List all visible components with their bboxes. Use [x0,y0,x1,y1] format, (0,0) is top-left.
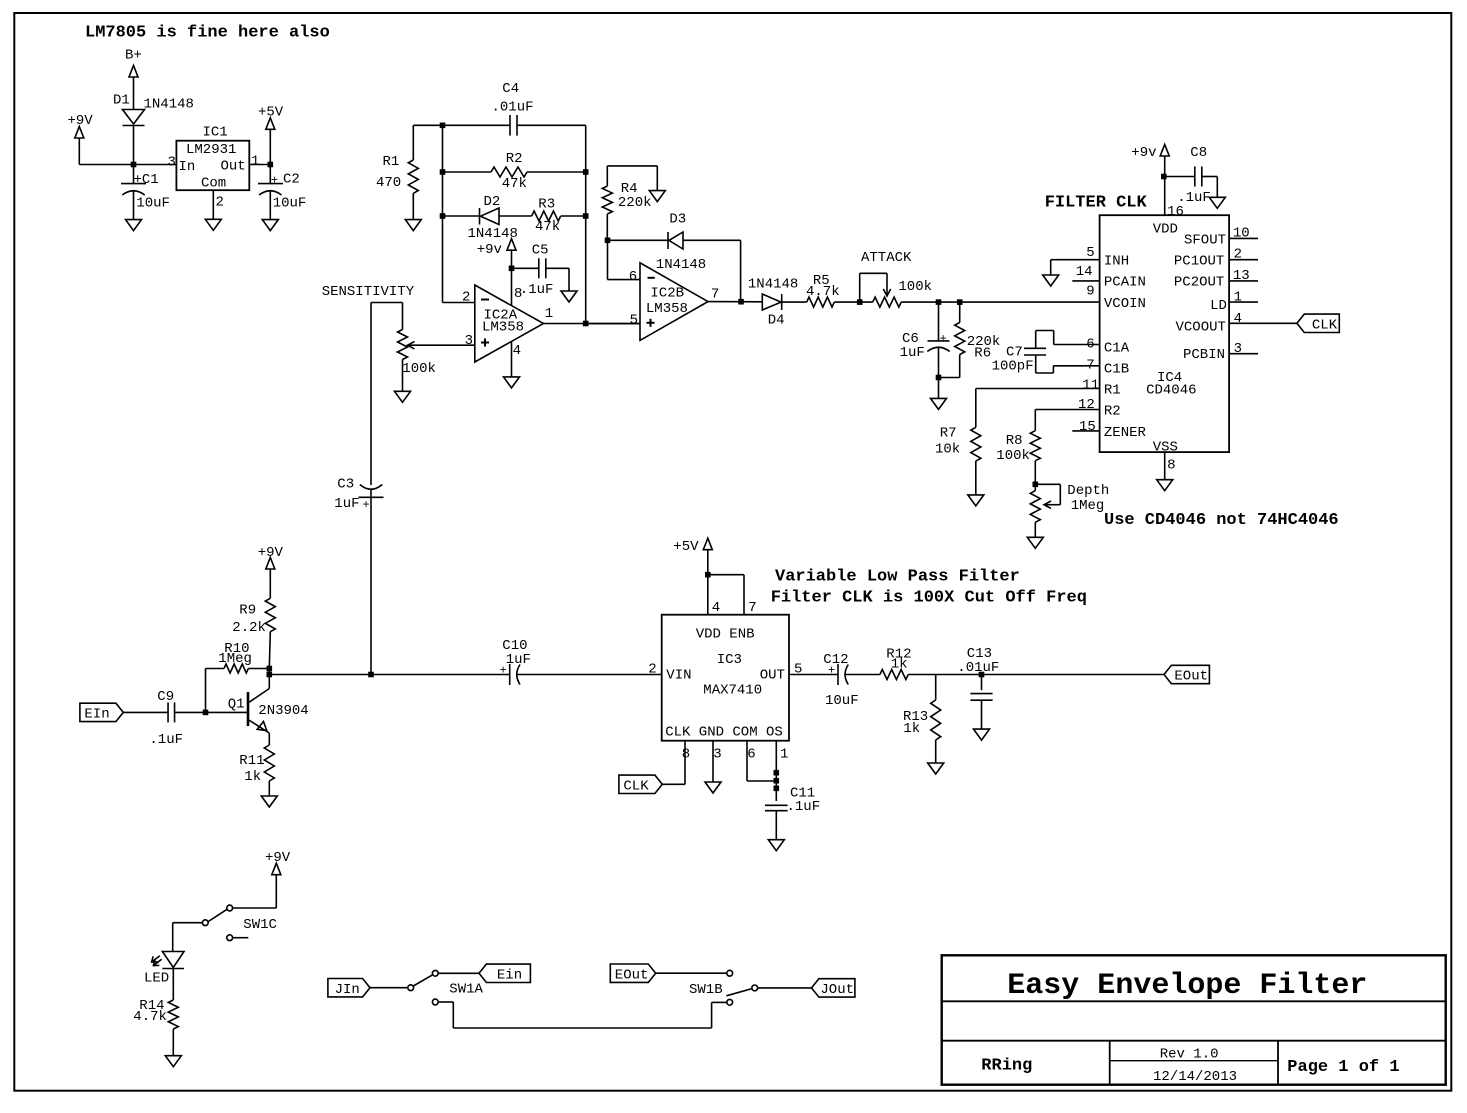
svg-text:2N3904: 2N3904 [258,703,308,719]
svg-text:CD4046: CD4046 [1146,383,1196,399]
switch SW1A lower contact [432,999,438,1005]
pin number 9 [1086,284,1094,300]
wire VCOOUT to CLK tag [1229,322,1297,324]
minus sign IC2A [481,299,489,301]
svg-text:JIn: JIn [335,982,360,998]
svg-text:R1: R1 [383,154,400,170]
junction R3 right [583,213,589,219]
wire pin2 IC2A [443,302,475,304]
pin number 10 [1233,226,1250,242]
svg-text:Easy Envelope Filter: Easy Envelope Filter [1007,969,1367,1003]
resistor R3 [532,211,561,221]
label IC2B [650,286,684,302]
capacitor C13 [970,694,992,701]
resistor R5 [807,297,835,307]
svg-text:470: 470 [376,175,401,191]
pin name VCOIN [1104,296,1146,312]
label D3 [669,212,686,228]
note Variable Low Pass Filter [775,568,1020,587]
pin number 8 IC4 [1167,458,1175,474]
svg-text:VDD ENB: VDD ENB [696,627,755,643]
svg-text:IC1: IC1 [203,125,228,141]
net tag EIn [80,703,123,722]
label LM358 A [482,319,524,335]
svg-text:R1: R1 [1104,383,1121,399]
node B+ label [125,48,142,64]
junction IC3 supply [705,572,711,578]
pin number 2 IC4 [1234,247,1242,263]
wire D2 row left [443,215,480,217]
value 470 [376,175,401,191]
pin number 4 IC4 [1234,311,1242,327]
LED D5 [152,952,184,969]
label SENSITIVITY [322,284,415,300]
page text [1287,1058,1399,1077]
pin number 3 IC2A [465,333,473,349]
svg-text:Variable Low Pass Filter: Variable Low Pass Filter [775,568,1020,587]
junction D2 row left [440,213,446,219]
svg-text:11: 11 [1082,378,1099,394]
wire R6 bottom join [939,377,960,379]
wire EOut to SW1B top [656,972,727,974]
wire SW1A to Ein tag [438,972,479,974]
pot SENSITIVITY bracket [371,303,403,330]
wire to C8 [1165,176,1195,178]
svg-text:PC1OUT: PC1OUT [1174,254,1224,270]
ground below IC2A [504,377,520,388]
value 1Meg depth [1071,498,1105,514]
power +5V arrow at IC3 [673,538,712,555]
svg-text:JOut: JOut [820,982,854,998]
pin number 7 IC2B [711,286,719,302]
svg-text:2: 2 [1234,247,1242,263]
value .1uF for C11 [787,799,821,815]
pin number 4 IC3 [712,600,720,616]
label IC1 [203,125,228,141]
pin number 16 [1167,204,1184,220]
svg-text:7: 7 [748,600,756,616]
svg-text:1: 1 [545,306,553,322]
junction D3 row [605,238,611,244]
switch SW1A lever [413,975,432,986]
svg-text:PCBIN: PCBIN [1183,347,1225,363]
value 4.7k for R14 [133,1009,167,1025]
label FILTER CLK [1045,193,1148,212]
label Q1 [228,697,245,713]
svg-text:9: 9 [1086,284,1094,300]
svg-text:1N4148: 1N4148 [656,257,706,273]
power +5V arrow [258,105,284,130]
pin names VDD ENB [696,627,755,643]
ground below R14 [165,1056,181,1067]
wire +5V down [269,129,271,164]
label + for C2 [271,173,278,187]
title block outer [942,955,1446,1084]
svg-text:8: 8 [1167,458,1175,474]
pin number 4 IC2A [513,343,521,359]
label D2 [484,194,501,210]
resistor R1 [408,125,418,219]
wire R3 to rail [561,215,586,217]
wire C6 to ground [938,378,940,399]
capacitor C7 bracket top [1036,331,1100,349]
capacitor C1 [121,165,146,220]
value 1k for R12 [891,657,908,673]
svg-text:4: 4 [513,343,521,359]
label R1 [383,154,400,170]
svg-text:10uF: 10uF [273,196,307,212]
value 1uF for C3 [334,496,359,512]
value 220k for R6 [967,334,1001,350]
svg-text:R8: R8 [1006,433,1023,449]
wire +9v to pin8 [511,250,513,305]
rev text [1160,1047,1219,1063]
svg-text:8: 8 [514,286,522,302]
value 1N4148 for D2 [468,226,518,242]
svg-text:2.2k: 2.2k [232,620,266,636]
ground below R11 [261,796,277,807]
svg-text:+: + [828,664,835,678]
net tag Ein [479,964,530,983]
wire INH to ground [1051,260,1100,275]
svg-text:4: 4 [1234,311,1242,327]
switch SW1C contact right [227,905,233,911]
wire JIn to SW1A [370,987,408,989]
wire SW1B to JOut [758,987,812,989]
svg-text:4.7k: 4.7k [806,284,840,300]
diode D3 [668,232,683,249]
svg-text:.01uF: .01uF [957,660,999,676]
ground below R1 [405,220,421,231]
svg-text:7: 7 [711,286,719,302]
value 100k sensitivity [402,361,436,377]
junction C6 top [936,299,942,305]
junction R2 left [440,169,446,175]
note Filter CLK is 100X [771,588,1087,607]
junction C5 [509,266,515,272]
junction C3 rail [368,672,374,678]
svg-text:VCOIN: VCOIN [1104,296,1146,312]
label R12 [886,647,911,663]
wire C12 to R12 [844,674,880,676]
wire pin6 IC2B [608,240,641,279]
net tag CLK in [619,775,662,794]
svg-text:5: 5 [1086,245,1094,261]
svg-text:+C1: +C1 [134,172,159,188]
pin name In [179,159,196,175]
pin name C1B [1104,362,1129,378]
pin stub PC1OUT [1229,259,1258,261]
svg-text:PC2OUT: PC2OUT [1174,275,1224,291]
resistor R12 [880,670,908,680]
pin number 5 IC4 [1086,245,1094,261]
pin name PC1OUT [1174,254,1224,270]
junction R2 right [583,169,589,175]
pot Depth element [1030,484,1040,522]
wire R12 to EOut [908,674,1164,676]
wire R1pin row [976,389,1100,428]
junction rail collector [267,672,273,678]
pot SENSITIVITY wiper [408,342,475,349]
svg-text:R7: R7 [940,426,957,442]
svg-text:+9v: +9v [477,242,502,258]
pin names CLK GND COM OS [665,725,783,741]
op-amp IC2B [640,263,708,341]
label + for C3 [363,498,370,512]
pin number 6 IC3 [747,747,755,763]
wire R2 row [443,171,586,173]
svg-text:IC3: IC3 [717,652,742,668]
svg-text:10uF: 10uF [136,196,170,212]
svg-text:Com: Com [201,176,226,192]
switch SW1B lower contact [727,999,733,1005]
wire pin8 IC4 to ground [1164,452,1166,480]
label ATTACK [861,250,912,266]
pot SENSITIVITY element [398,330,408,360]
svg-text:6: 6 [629,269,637,285]
svg-text:1k: 1k [903,721,920,737]
wire pot to ground [402,360,404,392]
pin number 5 IC2B [630,313,638,329]
label + for C10 [500,664,507,678]
svg-text:3: 3 [168,155,176,171]
wire attack to VCOIN [901,301,1099,303]
resistor R14 [168,1000,178,1056]
label C5 [532,243,549,259]
svg-text:14: 14 [1076,264,1093,280]
svg-text:16: 16 [1167,204,1184,220]
value 1k for R13 [903,721,920,737]
svg-text:1: 1 [1234,290,1242,306]
wire EIn to C9 [123,711,168,713]
label R9 [239,603,256,619]
ground below C13 [974,729,990,740]
label R4 [621,181,638,197]
svg-text:IC2B: IC2B [650,286,684,302]
svg-text:1uF: 1uF [334,496,359,512]
label R3 [538,197,555,213]
power +9v arrow at C8 [1131,145,1169,161]
capacitor C4 [510,115,517,136]
svg-text:+9V: +9V [68,113,94,129]
svg-text:.1uF: .1uF [520,282,554,298]
svg-text:Use CD4046 not 74HC4046: Use CD4046 not 74HC4046 [1104,511,1339,530]
resistor R9 [265,569,275,669]
pin number 3 IC3 [713,747,721,763]
pin name PC2OUT [1174,275,1224,291]
svg-text:1k: 1k [891,657,908,673]
resistor R10 [206,664,270,673]
value 1uF for C6 [900,345,925,361]
svg-text:.01uF: .01uF [492,100,534,116]
value 1N4148 for D4 [748,277,798,293]
value 1Meg for R10 [218,651,252,667]
switch SW1A common [408,985,414,991]
label LED [144,971,169,987]
svg-text:1Meg: 1Meg [218,651,252,667]
net tag EOut at SW1B [610,964,655,983]
svg-text:10k: 10k [935,442,960,458]
label +C1 [134,172,159,188]
label IC2A [484,308,518,324]
resistor R2 [491,167,527,177]
IC3 box [662,615,789,741]
wire depth to ground [1034,522,1036,537]
resistor R4 [602,166,612,214]
net tag JOut [812,979,855,998]
wire SW1C to LED [173,923,203,952]
resistor R8 [1030,431,1040,485]
value 47k for R3 [535,219,560,235]
value 1k for R11 [244,769,261,785]
svg-text:VDD: VDD [1153,221,1178,237]
svg-text:Rev 1.0: Rev 1.0 [1160,1047,1219,1063]
svg-text:1Meg: 1Meg [1071,498,1105,514]
title block vertical 1 [1109,1041,1111,1085]
pin number 3 IC1 [168,155,176,171]
value 220k for R4 [618,195,652,211]
svg-text:13: 13 [1233,268,1250,284]
wire envelope rail [269,674,509,676]
pin number 13 [1233,268,1250,284]
net tag EOut rail [1164,665,1209,684]
pin number 5 IC3 [794,662,802,678]
svg-text:10uF: 10uF [825,693,859,709]
svg-text:1N4148: 1N4148 [144,97,194,113]
pot Depth wiper [1035,484,1060,508]
svg-text:VIN: VIN [666,668,691,684]
pin name Com [201,176,226,192]
diode D1 [123,110,145,126]
wire GND pin3 [712,741,714,782]
wire R5 to attack [834,301,872,303]
pin number 11 [1082,378,1099,394]
pin name INH [1104,254,1129,270]
value 2.2k [232,620,266,636]
svg-text:LM7805 is fine here also: LM7805 is fine here also [85,23,330,42]
pin number 14 [1076,264,1093,280]
minus sign IC2B [648,277,655,279]
wire D4 to R5 [782,301,807,303]
junction OS 2 [774,778,780,784]
wire input rail down [442,125,444,302]
pin stub PCBIN [1229,353,1258,355]
ground right of R4 [649,191,665,202]
wire OS pin1 [775,741,777,801]
wire OUT to C12 [789,674,838,676]
wire IC1 pin2 down [212,190,214,219]
label SW1A [449,982,483,998]
svg-text:FILTER CLK: FILTER CLK [1045,193,1148,212]
junction C13 [979,672,985,678]
ground below C6 [931,398,947,409]
pin name OUT [760,668,785,684]
pin number 8 IC3 [682,747,690,763]
svg-text:Page 1 of 1: Page 1 of 1 [1287,1058,1399,1077]
label LM2931 [186,142,236,158]
label R11 [239,753,264,769]
note Use CD4046 [1104,511,1339,530]
svg-text:2: 2 [648,662,656,678]
pin name LD [1210,298,1227,314]
junction IC2A out [583,321,589,327]
value 10uF for C2 [273,196,307,212]
pin number 2 IC3 [648,662,656,678]
pin name PCBIN [1183,347,1225,363]
label IC3 [717,652,742,668]
svg-text:ATTACK: ATTACK [861,250,912,266]
capacitor C8 [1195,167,1202,187]
value 2N3904 [258,703,308,719]
pin name VCOOUT [1176,319,1226,335]
label D4 [768,313,785,329]
wire sensitivity rail down [370,303,372,486]
svg-text:+: + [363,498,370,512]
svg-text:1: 1 [251,154,259,170]
value 1N4148 for D1 [144,97,194,113]
svg-text:R2: R2 [506,151,523,167]
wire +5V to pin4 [707,550,709,615]
svg-text:VCOOUT: VCOOUT [1176,319,1226,335]
pin number 1 IC2A [545,306,553,322]
ground below C2 [262,220,278,231]
svg-text:PCAIN: PCAIN [1104,275,1146,291]
label R6 [974,346,991,362]
junction top of input net [440,123,446,129]
label R8 [1006,433,1023,449]
pin stub SFOUT [1229,237,1258,239]
svg-text:1uF: 1uF [900,345,925,361]
ground below R13 [928,763,944,774]
label IC4 [1157,370,1182,386]
svg-text:+9V: +9V [265,850,291,866]
svg-text:D3: D3 [669,212,686,228]
pin name R2 [1104,404,1121,420]
pin number 1 IC3 [780,747,788,763]
label Depth [1067,483,1109,499]
wire D3 row left [608,239,669,241]
junction R8 depth [1033,482,1039,488]
svg-text:INH: INH [1104,254,1129,270]
pot ATTACK wiper [883,273,890,296]
svg-text:15: 15 [1079,419,1096,435]
label + for C12 [828,664,835,678]
ground below IC4 [1157,480,1173,491]
label C2 [283,172,300,188]
svg-text:OUT: OUT [760,668,785,684]
pin name C1A [1104,340,1130,356]
svg-text:C4: C4 [502,81,519,97]
svg-text:1: 1 [780,747,788,763]
svg-text:+: + [500,664,507,678]
ground below sensitivity pot [395,391,411,402]
pin stub PCAIN [1072,280,1099,282]
note text LM7805 [85,23,330,42]
svg-text:In: In [179,159,196,175]
pin name SFOUT [1184,232,1226,248]
resistor R13 [931,675,941,764]
label R13 [903,709,928,725]
svg-text:CLK: CLK [623,778,649,794]
svg-text:220k: 220k [618,195,652,211]
value 1N4148 for D3 [656,257,706,273]
svg-text:6: 6 [747,747,755,763]
svg-text:D2: D2 [484,194,501,210]
svg-text:SENSITIVITY: SENSITIVITY [322,284,415,300]
switch SW1B top contact [727,970,733,976]
svg-text:3: 3 [465,333,473,349]
svg-text:7: 7 [1086,358,1094,374]
